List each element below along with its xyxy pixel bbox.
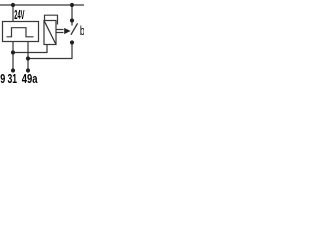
svg-text:49a: 49a xyxy=(22,71,38,84)
svg-text:b: b xyxy=(80,23,84,38)
svg-text:31: 31 xyxy=(8,71,18,84)
svg-text:24V: 24V xyxy=(14,7,24,22)
svg-text:9: 9 xyxy=(0,71,5,84)
